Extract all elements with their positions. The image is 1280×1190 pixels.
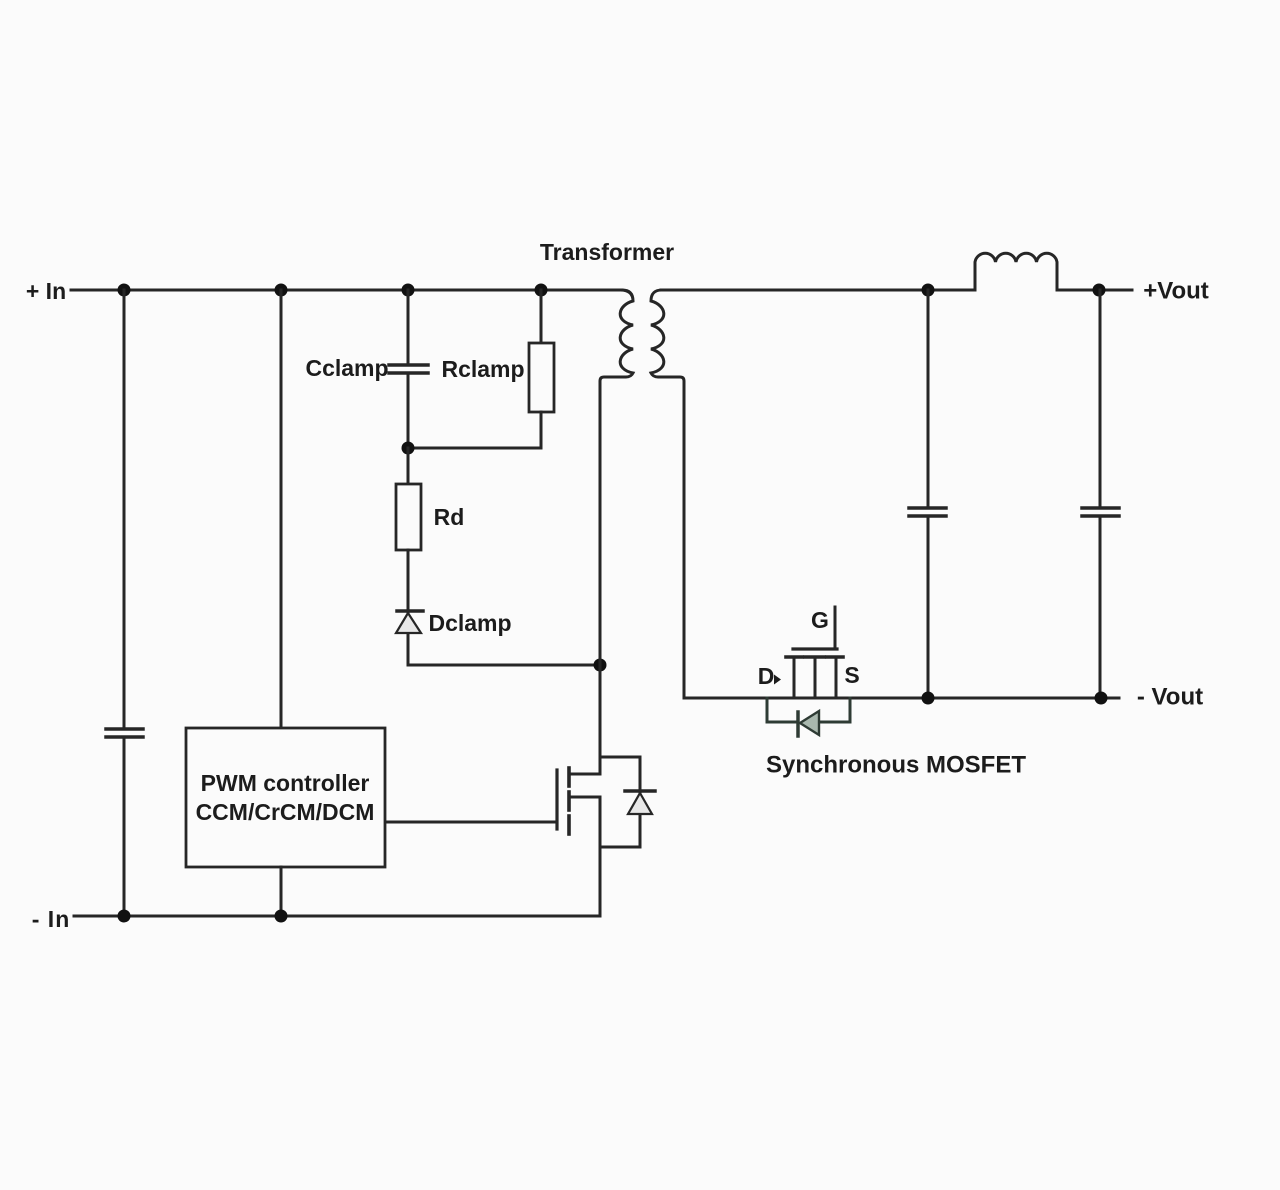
op-amp U1 PWM controller box — [186, 728, 385, 867]
wire Q2 drain stub — [793, 658, 796, 698]
wire Rclamp upper — [540, 290, 543, 343]
svg-text:+Vout: +Vout — [1143, 278, 1209, 305]
svg-text:S: S — [844, 662, 859, 688]
wire Rd upper — [407, 448, 410, 484]
wire Q1 source stub — [570, 796, 600, 799]
node junction dot Cclamp top — [402, 284, 415, 297]
label D arrow mark — [774, 675, 781, 685]
wire clamp return — [408, 664, 600, 667]
wire Q1 body diode bottom branch — [600, 846, 640, 849]
inductor transformer primary winding — [600, 290, 633, 665]
transistor Q2 channel segments — [786, 655, 843, 659]
diode Dclamp — [396, 611, 423, 633]
transistor Q1 drain wire — [599, 665, 602, 774]
wire Cclamp lower — [407, 374, 410, 448]
wire out cap1 upper — [927, 290, 930, 506]
node junction dot out cap1 bottom — [922, 692, 935, 705]
svg-text:CCM/CrCM/DCM: CCM/CrCM/DCM — [196, 799, 375, 825]
inductor transformer secondary winding — [651, 290, 684, 698]
node junction dot input cap top — [118, 284, 131, 297]
svg-text:Transformer: Transformer — [540, 239, 674, 265]
node junction dot PWM top — [275, 284, 288, 297]
node junction dot Rclamp top — [535, 284, 548, 297]
svg-text:- In: - In — [32, 906, 71, 932]
wire Q1 source down — [599, 797, 602, 916]
diode Q2 body diode — [798, 711, 819, 736]
capacitor Cout2 — [1082, 508, 1119, 516]
wire bottom input rail — [74, 915, 600, 918]
wire secondary bottom rail — [684, 697, 1119, 700]
wire Q2 body stub — [814, 658, 817, 698]
inductor output choke — [975, 253, 1057, 290]
wire top input rail — [71, 289, 622, 292]
wire Q2 source stub — [835, 658, 838, 698]
wire Rd lower — [407, 550, 410, 665]
wire PWM bottom — [280, 867, 283, 916]
capacitor Cin — [106, 729, 143, 737]
node junction dot clamp — [402, 442, 415, 455]
wire input cap lower — [123, 738, 126, 916]
svg-text:Rd: Rd — [434, 504, 465, 530]
svg-text:- Vout: - Vout — [1137, 684, 1203, 711]
svg-text:Cclamp: Cclamp — [305, 355, 388, 381]
wire out cap1 lower — [927, 517, 930, 698]
wire out cap2 lower — [1099, 517, 1102, 698]
svg-text:Rclamp: Rclamp — [441, 356, 524, 382]
transistor Q1 gate bar — [555, 770, 558, 829]
wire Q1 body diode vertical — [639, 757, 642, 847]
capacitor Cclamp — [389, 365, 428, 373]
wire Q2 body diode loop — [767, 698, 797, 722]
wire Q2 gate lead — [834, 607, 837, 648]
diode Q1 body diode — [625, 791, 655, 814]
svg-text:Synchronous MOSFET: Synchronous MOSFET — [766, 752, 1026, 779]
wire Cclamp upper — [407, 290, 410, 363]
wire Q1 body diode top branch — [600, 756, 640, 759]
node junction dot bottom PWM — [275, 910, 288, 923]
node junction dot out cap2 bottom — [1095, 692, 1108, 705]
resistor Rd — [396, 484, 421, 550]
resistor Rclamp — [529, 343, 554, 412]
svg-text:D: D — [758, 663, 775, 689]
svg-text:Dclamp: Dclamp — [428, 610, 511, 636]
wire secondary top rail — [661, 289, 975, 292]
node junction dot out cap1 top — [922, 284, 935, 297]
node junction dot bottom cap — [118, 910, 131, 923]
transistor Q2 gate bar — [793, 647, 837, 650]
wire input cap upper — [123, 290, 126, 727]
transistor Q1 channel segments — [567, 768, 571, 834]
svg-text:+ In: + In — [26, 278, 66, 304]
capacitor Cout1 — [909, 508, 946, 516]
wire PWM top feed — [280, 290, 283, 728]
wire to +Vout — [1057, 289, 1132, 292]
wire gate drive — [385, 821, 555, 824]
svg-text:G: G — [811, 607, 829, 633]
node junction dot drain — [594, 659, 607, 672]
wire Q1 drain stub — [570, 773, 600, 776]
node junction dot out cap2 top — [1093, 284, 1106, 297]
wire out cap2 upper — [1099, 290, 1102, 506]
wire Rclamp lower — [408, 412, 541, 448]
svg-text:PWM controller: PWM controller — [201, 770, 370, 796]
